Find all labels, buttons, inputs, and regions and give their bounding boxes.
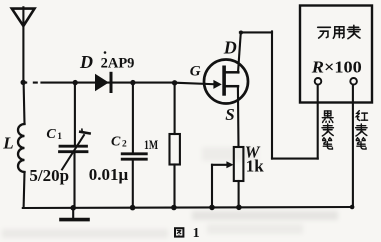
svg-text:1: 1 <box>193 226 200 241</box>
svg-text:C: C <box>46 127 56 142</box>
svg-text:5/20p: 5/20p <box>29 166 69 185</box>
svg-text:1k: 1k <box>246 156 264 175</box>
svg-text:C: C <box>111 134 121 149</box>
svg-text:S: S <box>225 105 234 124</box>
svg-text:G: G <box>190 63 201 79</box>
svg-text:2AP9: 2AP9 <box>101 56 135 72</box>
svg-text:0.01μ: 0.01μ <box>89 165 129 184</box>
svg-text:1: 1 <box>57 132 62 142</box>
svg-text:1M: 1M <box>144 138 158 152</box>
svg-text:D: D <box>223 38 237 58</box>
svg-text:L: L <box>2 134 13 153</box>
svg-text:2: 2 <box>122 139 127 149</box>
svg-text:R×100: R×100 <box>311 57 362 76</box>
svg-text:D: D <box>79 52 93 72</box>
